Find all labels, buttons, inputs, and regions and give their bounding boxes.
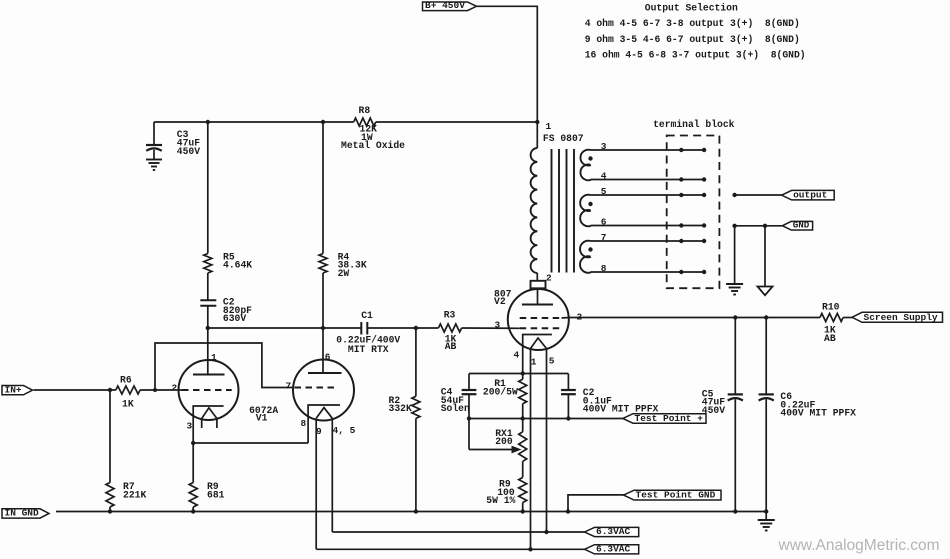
- node V2 pin1 heater at line 2: [528, 547, 532, 551]
- text output selection line 3: [585, 49, 806, 60]
- terminal block dot col1 row 6: [679, 223, 683, 227]
- svg-text:1K: 1K: [122, 399, 134, 410]
- label V1a pin 3: [187, 420, 193, 431]
- label secondary pin 7: [601, 232, 607, 243]
- wire top B+ bus: [154, 121, 537, 123]
- svg-text:Output Selection: Output Selection: [645, 3, 738, 14]
- wire V1 cathode tie: [193, 442, 308, 444]
- label C1: [361, 310, 373, 321]
- label V2 pin 3: [495, 319, 501, 330]
- triode V1b plate: [308, 372, 342, 374]
- label C2 820pF: [223, 297, 252, 325]
- svg-text:MIT RTX: MIT RTX: [348, 344, 389, 355]
- label 6072A V1: [249, 405, 278, 423]
- svg-text:R10: R10: [822, 301, 840, 312]
- terminal block dot col2 row 5: [702, 193, 706, 197]
- svg-text:16 ohm 4-5 6-8 3-7 output 3(+): 16 ohm 4-5 6-8 3-7 output 3(+) 8(GND): [585, 49, 806, 60]
- label C2 0.1uF: [583, 387, 659, 415]
- node C6 at ground bus: [764, 509, 768, 513]
- terminal block dot col1 row 7: [679, 239, 683, 243]
- triode V1a envelope: [179, 360, 239, 420]
- svg-text:4.64K: 4.64K: [223, 260, 252, 271]
- triode V1b envelope: [293, 360, 354, 421]
- ground below C3: [146, 160, 162, 171]
- triode V1a cathode: [193, 406, 223, 443]
- terminal block dot col2 row 7: [702, 239, 706, 243]
- svg-text:Metal Oxide: Metal Oxide: [341, 140, 405, 151]
- svg-text:200/5W: 200/5W: [483, 387, 518, 398]
- ground (earth) below GND row: [726, 284, 743, 295]
- beam tetrode V2 screen grid (dashed): [520, 317, 562, 319]
- wire B+ to transformer primary: [477, 6, 537, 148]
- watermark www.AnalogMetric.com: [778, 537, 940, 554]
- tag output: [782, 190, 835, 201]
- capacitor C3: [146, 122, 162, 160]
- svg-text:3: 3: [601, 141, 607, 152]
- beam tetrode V2 control grid (dashed): [520, 327, 562, 329]
- svg-text:GND: GND: [793, 220, 810, 231]
- label V1a pin 1: [211, 352, 217, 363]
- svg-text:V2: V2: [494, 296, 506, 307]
- node C6 top junction: [764, 315, 768, 319]
- svg-text:terminal block: terminal block: [653, 119, 735, 130]
- svg-text:Test Point +: Test Point +: [635, 413, 704, 424]
- transformer secondary winding 7-8: [580, 241, 591, 273]
- label secondary pin 6: [601, 216, 607, 227]
- beam tetrode V2 plate: [522, 304, 553, 306]
- terminal block dot col1 row 3: [679, 148, 683, 152]
- triode V1b cathode: [308, 405, 340, 443]
- label V2 pin 2 screen: [577, 311, 583, 322]
- svg-text:4: 4: [514, 349, 520, 360]
- resistor R10: [820, 314, 843, 322]
- wire secondary pin 7 lead: [591, 240, 705, 242]
- node junction B+ bus / primary pin 1: [535, 120, 539, 124]
- node C2 bottom junction: [566, 416, 570, 420]
- text output selection line 1: [585, 18, 800, 29]
- label R6: [120, 375, 132, 386]
- svg-text:6.3VAC: 6.3VAC: [596, 544, 631, 555]
- rheostat RX1 wiper arrow: [512, 446, 522, 454]
- tag IN GND: [2, 508, 49, 519]
- label secondary pin 8: [601, 263, 607, 274]
- terminal block dot col1 row 5: [679, 193, 683, 197]
- svg-text:IN+: IN+: [5, 384, 22, 395]
- wire secondary pin 4 lead: [591, 179, 705, 181]
- label V2 pin 5: [549, 356, 555, 367]
- transformer T1 primary winding: [531, 148, 538, 273]
- capacitor C5 (with wires): [728, 318, 743, 512]
- svg-text:332K: 332K: [389, 403, 412, 414]
- wire secondary pin 5 lead: [591, 194, 705, 196]
- ground below C6: [758, 520, 775, 531]
- tag Test Point GND: [624, 490, 721, 501]
- label R1: [483, 378, 518, 398]
- node V1a cathode / R9 junction: [191, 441, 195, 445]
- triode V1b heater: [316, 408, 332, 419]
- wire GND row down to earth ground: [734, 226, 736, 284]
- transformer secondary polarity dot (5-6): [588, 202, 592, 206]
- transformer secondary polarity dot (7-8): [588, 247, 592, 251]
- wire V2 heater pin 1 down: [530, 349, 532, 550]
- label FS 0807: [543, 133, 584, 144]
- triode V1b grid (dashed): [295, 387, 339, 389]
- label secondary pin 4: [601, 170, 607, 181]
- node GND row junction 2: [763, 224, 767, 228]
- node R9 at ground bus: [191, 509, 195, 513]
- svg-text:5W 1%: 5W 1%: [486, 495, 515, 506]
- svg-text:Solen: Solen: [441, 403, 470, 414]
- svg-text:6: 6: [325, 352, 331, 363]
- label R9 100: [486, 479, 515, 507]
- svg-text:1: 1: [531, 356, 537, 367]
- svg-text:9 ohm 3-5 4-6 6-7 output 3(+): 9 ohm 3-5 4-6 6-7 output 3(+) 8(GND): [585, 34, 800, 45]
- svg-text:FS 0807: FS 0807: [543, 133, 584, 144]
- tag 6.3VAC lower: [585, 544, 639, 555]
- svg-text:1: 1: [211, 352, 217, 363]
- label R5: [223, 251, 252, 270]
- ground (chassis triangle): [758, 287, 773, 296]
- tag GND: [782, 220, 812, 231]
- svg-text:7: 7: [601, 232, 607, 243]
- node R1 bottom junction: [521, 416, 525, 420]
- wire GND row to tag: [735, 225, 783, 227]
- node R5 top at bus: [206, 120, 210, 124]
- svg-text:output: output: [793, 190, 827, 201]
- resistor R2 (with wires): [412, 328, 420, 512]
- svg-text:5: 5: [601, 186, 607, 197]
- tag Test Point +: [623, 413, 706, 424]
- label C5: [702, 388, 725, 416]
- terminal block dot col2 row 8: [702, 270, 706, 274]
- node R4 top at bus: [321, 120, 325, 124]
- node IN+ / R7 junction: [108, 388, 112, 392]
- svg-text:AB: AB: [445, 341, 457, 352]
- label R3: [444, 310, 456, 321]
- wire coupling line plates to V2 grid: [208, 327, 520, 329]
- wire secondary pin 3 lead: [591, 149, 705, 151]
- node C5 top junction: [733, 315, 737, 319]
- node plate V1a / C2 junction: [206, 326, 210, 330]
- wire C6 node to ground: [765, 512, 767, 521]
- label V2 pin 1: [531, 356, 537, 367]
- resistor R7 (with wires): [106, 390, 114, 512]
- label V2 pin 2 top: [0, 0, 1, 1]
- transformer T1 core: [552, 149, 575, 273]
- wire cathode network top rail: [469, 373, 568, 375]
- svg-text:4, 5: 4, 5: [333, 425, 356, 436]
- wire 6.3VAC heater line 2: [316, 548, 584, 550]
- resistor R4 (with wires to bus and plate): [319, 122, 327, 373]
- node output wire junction: [732, 193, 736, 197]
- resistor R9 681 (with wires): [189, 443, 197, 512]
- wire RX1 wiper: [469, 449, 512, 451]
- label V1b pin 7: [286, 380, 292, 391]
- node V2 cathode top junction: [521, 371, 525, 375]
- svg-text:450V: 450V: [702, 405, 725, 416]
- node C4 bottom junction: [467, 416, 471, 420]
- resistor R1 (with wires): [519, 374, 527, 432]
- svg-text:630V: 630V: [223, 313, 246, 324]
- rheostat RX1: [519, 432, 527, 462]
- wire ground bus: [56, 511, 766, 513]
- terminal block dot col1 row 4: [679, 177, 683, 181]
- label V1b pin 6: [325, 352, 331, 363]
- svg-text:R6: R6: [120, 375, 132, 386]
- beam tetrode V2 heater: [531, 338, 547, 349]
- node R2 at ground bus: [414, 509, 418, 513]
- node R6 / grid-tie junction: [153, 388, 157, 392]
- label R10: [822, 301, 840, 312]
- svg-text:400V MIT PPFX: 400V MIT PPFX: [780, 408, 856, 419]
- svg-text:3: 3: [495, 319, 501, 330]
- label R7: [123, 481, 146, 500]
- terminal block dot col1 row 8: [679, 270, 683, 274]
- svg-text:450V: 450V: [177, 146, 200, 157]
- label RX1: [495, 428, 513, 447]
- terminal block dot col2 row 3: [702, 148, 706, 152]
- svg-text:6.3VAC: 6.3VAC: [596, 526, 631, 537]
- label transformer pin 2: [546, 273, 552, 284]
- node R2 top junction: [414, 326, 418, 330]
- svg-text:6: 6: [601, 216, 607, 227]
- capacitor C6 (with wires): [759, 318, 774, 512]
- resistor R9 100 (with wires): [519, 461, 527, 511]
- label transformer pin 1: [546, 121, 552, 132]
- svg-text:3: 3: [187, 420, 193, 431]
- label C4: [441, 387, 470, 415]
- node R9 100 at ground bus: [521, 509, 525, 513]
- node GND row junction 1: [732, 224, 736, 228]
- label V1b pin 9: [316, 426, 322, 437]
- label 807 V2: [494, 289, 512, 308]
- label V1b pin 8: [301, 418, 307, 429]
- svg-text:5: 5: [549, 356, 555, 367]
- label R2: [389, 395, 412, 414]
- label V1a pin 2: [172, 383, 178, 394]
- svg-text:Test Point GND: Test Point GND: [636, 490, 716, 501]
- wire V2 screen to R10: [562, 317, 852, 320]
- svg-text:2: 2: [546, 273, 552, 284]
- svg-text:B+ 450V: B+ 450V: [425, 0, 465, 11]
- label C1 value: [336, 334, 400, 355]
- wire IN+ to V1 grid: [34, 389, 183, 391]
- capacitor C2 820pF: [200, 273, 216, 375]
- power tag B+ 450V: [423, 0, 477, 11]
- wire V2 heater pin 5 down: [546, 349, 548, 533]
- label R3 value: [445, 333, 457, 352]
- svg-text:R3: R3: [444, 310, 456, 321]
- label C6: [780, 391, 856, 419]
- svg-text:8: 8: [301, 418, 307, 429]
- triode V1a plate: [193, 374, 225, 376]
- tag 6.3VAC upper: [585, 526, 639, 537]
- node V2 pin5 heater at line 1: [544, 530, 548, 534]
- node plate V1b / R4 junction: [321, 326, 325, 330]
- wire secondary pin 8 lead: [591, 271, 705, 273]
- svg-text:4: 4: [601, 170, 607, 181]
- text output selection title: [645, 3, 738, 14]
- tag Screen Supply: [852, 312, 943, 323]
- terminal block dot col2 row 6: [702, 223, 706, 227]
- wire 6.3VAC heater line 1: [332, 531, 584, 533]
- node Test Point GND at bus: [566, 509, 570, 513]
- label V2 pin 4: [514, 349, 520, 360]
- label R8: [359, 105, 371, 116]
- svg-text:8: 8: [601, 263, 607, 274]
- label secondary pin 3: [601, 141, 607, 152]
- svg-text:Screen Supply: Screen Supply: [864, 312, 938, 323]
- label R9 681: [207, 481, 225, 500]
- svg-text:R8: R8: [359, 105, 371, 116]
- beam tetrode V2 envelope: [508, 289, 569, 350]
- resistor R3: [438, 324, 461, 332]
- resistor R6: [116, 386, 140, 394]
- capacitor C2 0.1uF: [561, 374, 576, 419]
- terminal block (dashed): [667, 136, 720, 289]
- label R6 value: [122, 399, 134, 410]
- wire GND row down to chassis ground: [764, 226, 766, 287]
- capacitor C4: [462, 374, 477, 450]
- transformer secondary winding 3-4: [580, 150, 590, 181]
- label secondary pin 5: [601, 186, 607, 197]
- svg-text:C1: C1: [361, 310, 373, 321]
- node C5 at ground bus: [733, 509, 737, 513]
- transformer secondary polarity dot (3-4): [588, 156, 592, 160]
- label R10 value: [824, 325, 836, 344]
- svg-text:2: 2: [172, 383, 178, 394]
- svg-text:1: 1: [546, 121, 552, 132]
- wire grid tie V1a to V1b: [155, 343, 294, 390]
- label R4: [338, 251, 367, 279]
- wire primary pin 2 to V2 top cap: [536, 273, 538, 305]
- svg-text:www.AnalogMetric.com: www.AnalogMetric.com: [778, 537, 940, 554]
- label R8 value: [341, 124, 405, 152]
- node R7 at ground bus: [108, 509, 112, 513]
- text output selection line 2: [585, 34, 800, 45]
- capacitor C1: [361, 322, 367, 335]
- beam tetrode V2 top cap: [531, 281, 546, 289]
- svg-text:IN GND: IN GND: [5, 508, 40, 519]
- beam tetrode V2 cathode: [523, 335, 552, 374]
- wire V1b heater pins 4,5 down: [331, 418, 333, 532]
- triode V1a heater: [202, 408, 217, 428]
- svg-text:7: 7: [286, 380, 292, 391]
- svg-text:2W: 2W: [338, 268, 350, 279]
- label C3 value: [177, 129, 200, 157]
- label V1b pins 4,5: [333, 425, 356, 436]
- tag IN+: [2, 384, 33, 395]
- svg-text:221K: 221K: [123, 489, 146, 500]
- wire output node to tag: [735, 194, 782, 196]
- wire cathode network bottom rail: [469, 418, 623, 420]
- svg-text:AB: AB: [824, 333, 836, 344]
- svg-text:4 ohm 4-5 6-7 3-8 output 3(+): 4 ohm 4-5 6-7 3-8 output 3(+) 8(GND): [585, 18, 800, 29]
- resistor R8: [354, 118, 376, 126]
- wire V1b heater pin 9 down: [315, 418, 317, 549]
- transformer secondary winding 5-6: [580, 195, 591, 227]
- svg-text:V1: V1: [256, 413, 268, 424]
- triode V1a grid (dashed): [182, 389, 232, 391]
- resistor R5 (with wire from bus): [204, 122, 212, 273]
- svg-text:681: 681: [207, 489, 225, 500]
- label terminal block: [653, 119, 735, 130]
- terminal block dot col2 row 4: [702, 177, 706, 181]
- svg-text:200: 200: [495, 436, 513, 447]
- wire Test Point GND to bus: [568, 495, 624, 512]
- wire secondary pin 6 lead: [591, 225, 705, 227]
